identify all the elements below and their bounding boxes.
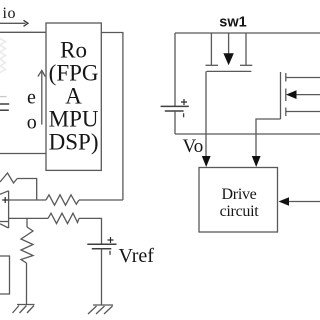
svg-text:io: io xyxy=(3,5,17,22)
svg-text:Vo: Vo xyxy=(183,136,204,157)
svg-text:(FPG: (FPG xyxy=(49,61,99,86)
svg-text:sw1: sw1 xyxy=(219,15,246,31)
svg-text:Vref: Vref xyxy=(119,245,155,267)
svg-text:Drive: Drive xyxy=(222,186,257,203)
svg-text:e: e xyxy=(27,86,36,108)
svg-text:MPU: MPU xyxy=(49,107,99,132)
svg-text:circuit: circuit xyxy=(220,203,260,220)
svg-text:A: A xyxy=(65,84,82,109)
svg-text:Ro: Ro xyxy=(60,38,87,63)
svg-text:o: o xyxy=(27,112,37,134)
svg-text:DSP): DSP) xyxy=(49,130,99,155)
